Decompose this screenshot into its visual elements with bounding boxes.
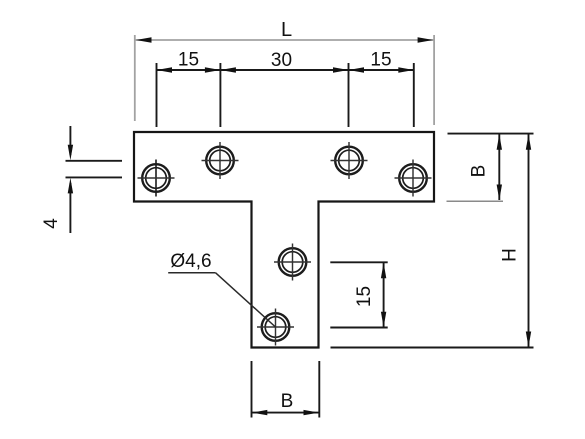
hole 3 (upper row) [331, 142, 368, 179]
leader Ø4,6 (hole diameter callout) [168, 273, 275, 327]
svg-text:B: B [281, 391, 294, 412]
dimension B (top right): arrowheads [497, 134, 502, 200]
svg-text:4: 4 [41, 218, 62, 229]
svg-text:15: 15 [178, 50, 199, 71]
dimensions 15/30/15: extension lines [157, 63, 414, 127]
hole 1 (left, lower row) [138, 160, 175, 197]
hole 5 (stem upper) [274, 244, 311, 281]
dimensions 15/30/15: arrowheads [157, 67, 414, 72]
hole 2 (upper row) [202, 142, 239, 179]
hole 6 (stem lower) [257, 309, 294, 346]
hole 4 (right, lower row) [395, 160, 432, 197]
svg-text:H: H [500, 248, 521, 262]
svg-text:15: 15 [370, 50, 391, 71]
dimension B (bottom): arrowheads [252, 410, 319, 415]
svg-text:30: 30 [271, 50, 292, 71]
dimension 15 (stem): arrowheads [381, 263, 386, 328]
dimension 15 (stem holes spacing) [330, 262, 387, 327]
svg-text:Ø4,6: Ø4,6 [170, 251, 211, 272]
dimension 4 (hole row offset, left side) [66, 126, 123, 233]
dimension H (far right) [331, 134, 534, 348]
dimension L: extension lines (gray) [135, 35, 434, 125]
svg-text:B: B [469, 165, 490, 178]
plate outline (T-shaped bracket) [134, 132, 434, 348]
dimension 4: arrowheads [68, 145, 73, 194]
dimension B (bottom): extension lines [252, 361, 320, 418]
svg-text:15: 15 [354, 286, 375, 307]
dimension L: arrowheads [136, 37, 152, 42]
svg-text:L: L [281, 19, 292, 41]
dimension B (top right): extension lines [447, 134, 534, 202]
dimension H: arrowheads [526, 134, 531, 347]
